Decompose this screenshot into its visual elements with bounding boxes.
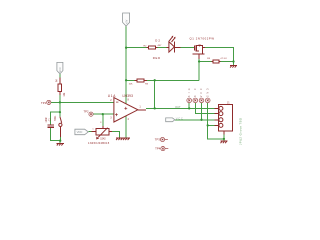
svg-text:VDD: VDD xyxy=(77,130,83,134)
svg-text:VCC: VCC xyxy=(176,116,183,120)
svg-text:VCC: VCC xyxy=(59,67,62,72)
svg-text:TP2: TP2 xyxy=(83,110,89,114)
svg-text:D2: D2 xyxy=(155,38,160,42)
svg-text:TP1: TP1 xyxy=(41,101,47,105)
svg-text:OUT: OUT xyxy=(175,105,181,109)
svg-text:470K: 470K xyxy=(220,58,227,60)
svg-text:100n: 100n xyxy=(45,117,48,123)
svg-text:RED: RED xyxy=(153,56,160,60)
svg-text:+5V: +5V xyxy=(125,19,128,24)
svg-text:Q1 2N7002PW: Q1 2N7002PW xyxy=(190,36,215,40)
svg-text:1N450J04B015: 1N450J04B015 xyxy=(88,141,110,145)
svg-text:SW1: SW1 xyxy=(54,115,57,121)
svg-text:U1A: U1A xyxy=(108,94,116,98)
svg-text:TP4: TP4 xyxy=(155,147,161,151)
svg-text:LM393: LM393 xyxy=(123,94,134,98)
svg-text:JP&2 Grove TBD: JP&2 Grove TBD xyxy=(239,118,243,145)
svg-text:GND: GND xyxy=(206,88,209,97)
svg-text:VCC: VCC xyxy=(200,88,203,97)
svg-text:10K: 10K xyxy=(129,83,133,85)
svg-text:1542: 1542 xyxy=(100,137,106,140)
svg-text:TP3: TP3 xyxy=(155,137,161,141)
svg-text:SIG: SIG xyxy=(188,88,191,97)
